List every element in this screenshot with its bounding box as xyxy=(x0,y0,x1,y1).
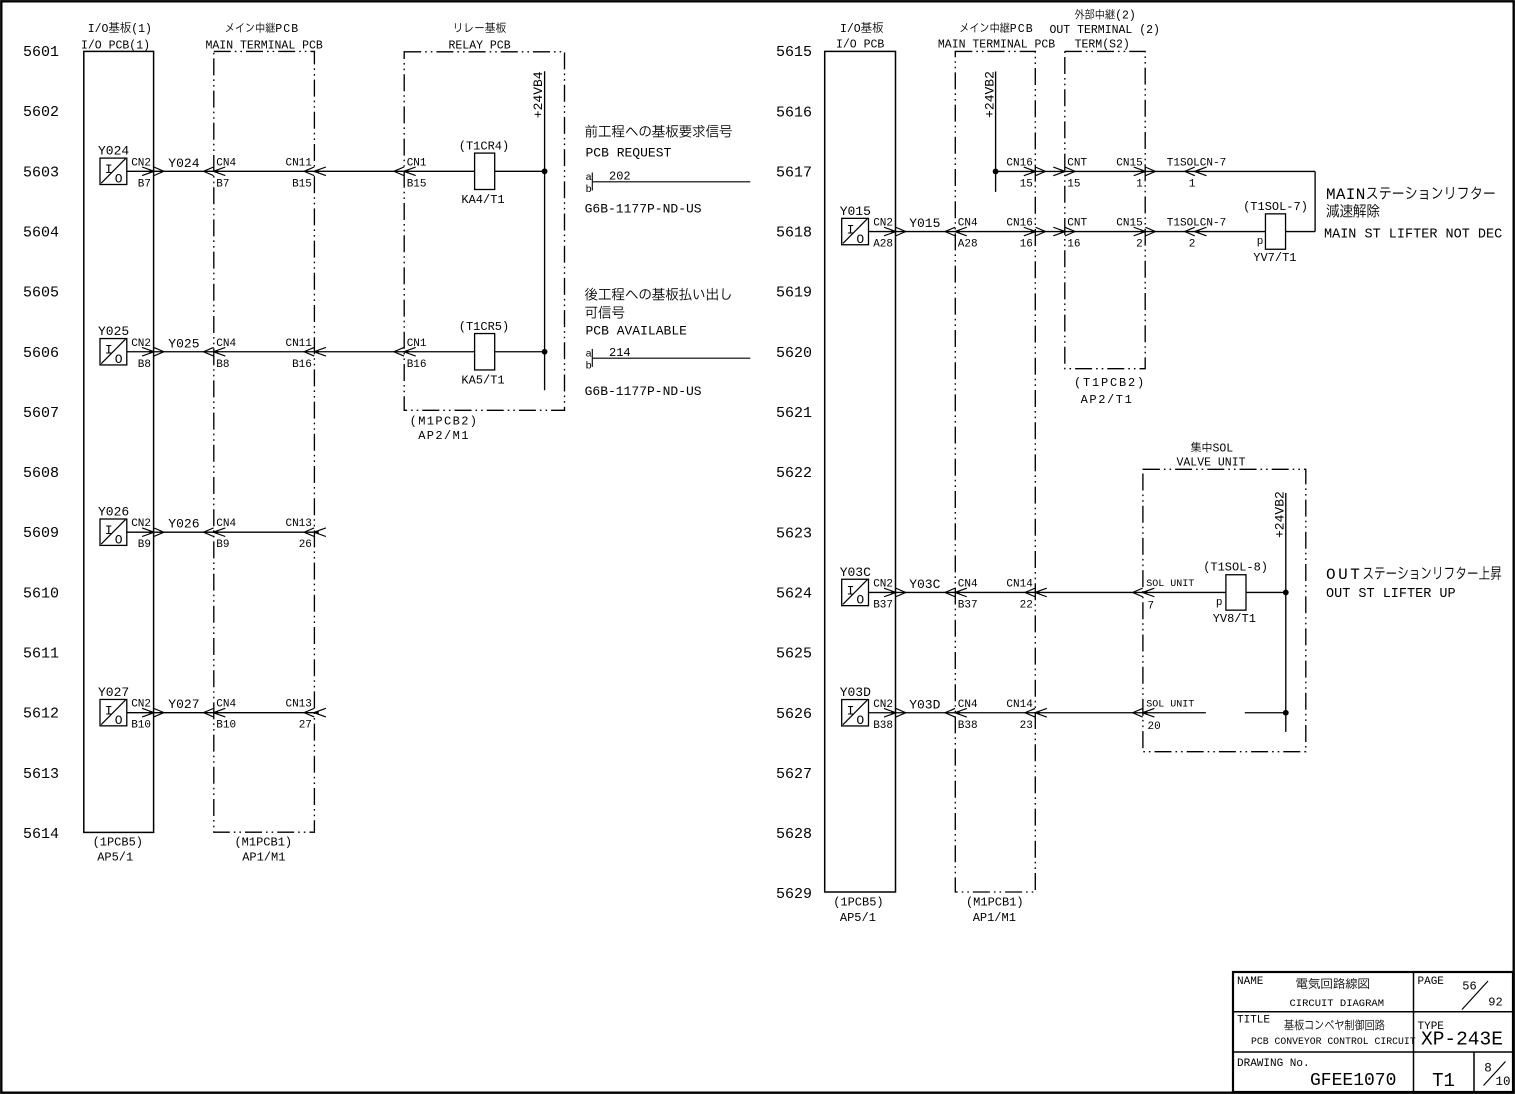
MAIN TERMINAL PCB outline AP1/M1 left xyxy=(214,51,315,832)
svg-text:B38: B38 xyxy=(873,720,893,732)
svg-text:Y026: Y026 xyxy=(98,505,129,520)
svg-text:CN2: CN2 xyxy=(131,518,151,530)
svg-text:CN14: CN14 xyxy=(1006,578,1033,590)
connector crossing CN14 pin 22 xyxy=(1006,578,1046,611)
relay coil KA5/T1 (T1CR5) xyxy=(459,320,509,387)
svg-text:CN2: CN2 xyxy=(131,699,151,711)
net number 214 with rule xyxy=(586,346,751,372)
svg-text:CN2: CN2 xyxy=(873,699,893,711)
connector crossing CN16 pin 16 xyxy=(1006,218,1045,251)
svg-text:I/O PCB: I/O PCB xyxy=(836,39,884,52)
svg-text:B7: B7 xyxy=(216,178,229,190)
connector crossing CNT pin 15 xyxy=(1053,157,1087,190)
wire row 5624 Y03C xyxy=(869,591,1286,593)
label (M1PCB2) AP2/M1 xyxy=(410,415,479,444)
svg-text:GFEE1070: GFEE1070 xyxy=(1310,1071,1396,1091)
svg-text:T1SOLCN-7: T1SOLCN-7 xyxy=(1167,218,1226,230)
svg-text:5629: 5629 xyxy=(776,886,812,903)
svg-text:B16: B16 xyxy=(292,359,312,371)
svg-text:T1SOLCN-7: T1SOLCN-7 xyxy=(1167,157,1226,169)
connector crossing SOL UNIT pin 7 xyxy=(1133,579,1195,613)
svg-text:(T1CR5): (T1CR5) xyxy=(459,320,509,334)
svg-text:NAME: NAME xyxy=(1237,976,1264,988)
svg-text:B37: B37 xyxy=(873,599,893,611)
OUT TERMINAL(2) header xyxy=(1050,9,1160,52)
MAIN TERMINAL PCB header left xyxy=(206,22,323,52)
svg-text:5615: 5615 xyxy=(776,44,812,61)
svg-text:5607: 5607 xyxy=(23,405,59,422)
svg-text:5623: 5623 xyxy=(776,525,812,542)
svg-text:(T1SOL-7): (T1SOL-7) xyxy=(1243,200,1308,214)
svg-text:5613: 5613 xyxy=(23,766,59,783)
svg-text:CN4: CN4 xyxy=(958,578,978,590)
svg-text:AP2/T1: AP2/T1 xyxy=(1081,393,1134,407)
svg-text:5627: 5627 xyxy=(776,766,812,783)
connector crossing CN4 pin B7 row 5603 xyxy=(204,157,237,190)
svg-text:5604: 5604 xyxy=(23,224,59,241)
RELAY PCB outline AP2/M1 xyxy=(404,52,564,411)
power rail +24VB2 upper xyxy=(983,71,998,192)
svg-text:MAIN TERMINAL PCB: MAIN TERMINAL PCB xyxy=(206,39,323,52)
connector crossing CN4 pin B38 xyxy=(945,699,978,732)
connector crossing CN13 pin 27 row 5612 xyxy=(285,699,325,732)
svg-text:DRAWING No.: DRAWING No. xyxy=(1237,1058,1310,1070)
svg-text:15: 15 xyxy=(1020,178,1033,190)
wire row 5618 Y015 xyxy=(869,231,1316,233)
svg-text:B9: B9 xyxy=(138,539,151,551)
svg-text:CN2: CN2 xyxy=(131,157,151,169)
svg-text:O: O xyxy=(115,532,123,547)
I/O output symbol Y015 xyxy=(840,204,871,247)
svg-text:2: 2 xyxy=(1136,239,1143,251)
MAIN TERMINAL PCB outline AP1/M1 right xyxy=(955,51,1035,892)
svg-text:VALVE UNIT: VALVE UNIT xyxy=(1177,456,1246,469)
svg-text:B8: B8 xyxy=(138,359,151,371)
wire row 5609 Y026 xyxy=(127,531,315,533)
svg-text:A28: A28 xyxy=(958,239,978,251)
svg-text:a: a xyxy=(586,348,592,360)
label (T1PCB2) AP2/T1 xyxy=(1074,376,1146,407)
connector crossing CN2 pin B37 xyxy=(873,578,906,611)
connector crossing T1SOLCN-7 pin 2 xyxy=(1167,218,1226,251)
I/O output symbol Y026 xyxy=(98,505,129,548)
svg-text:OUT: OUT xyxy=(1326,566,1362,584)
title block PAGE cell xyxy=(1418,976,1503,1010)
svg-text:KA5/T1: KA5/T1 xyxy=(461,373,504,387)
svg-text:Y027: Y027 xyxy=(98,685,129,700)
connector crossing CN4 pin B8 row 5606 xyxy=(204,338,237,371)
svg-text:(M1PCB1): (M1PCB1) xyxy=(234,836,292,850)
svg-text:PCB CONVEYOR CONTROL CIRCUIT: PCB CONVEYOR CONTROL CIRCUIT xyxy=(1251,1036,1416,1047)
svg-text:7: 7 xyxy=(1148,600,1155,612)
svg-text:Y027: Y027 xyxy=(168,697,199,712)
svg-text:(M1PCB1): (M1PCB1) xyxy=(966,896,1024,910)
annotation PCB AVAILABLE signal name xyxy=(585,288,731,339)
svg-text:+24VB4: +24VB4 xyxy=(531,71,546,118)
svg-text:(2): (2) xyxy=(1115,10,1136,23)
svg-text:Y03D: Y03D xyxy=(909,697,940,712)
connector crossing CN14 pin 23 xyxy=(1006,699,1046,732)
svg-text:Y03C: Y03C xyxy=(909,577,940,592)
svg-text:5610: 5610 xyxy=(23,585,59,602)
svg-text:5614: 5614 xyxy=(23,826,59,843)
label (1PCB5) AP5/1 right xyxy=(833,896,883,926)
svg-text:CN4: CN4 xyxy=(216,157,236,169)
svg-text:27: 27 xyxy=(299,720,312,732)
power rail +24VB2 valve unit xyxy=(1273,491,1288,732)
connector crossing CN4 pin B10 row 5612 xyxy=(204,699,237,732)
svg-text:16: 16 xyxy=(1067,239,1080,251)
svg-text:B16: B16 xyxy=(407,359,427,371)
svg-text:I/O: I/O xyxy=(840,23,861,36)
junction dot row 5606 on +24VB4 xyxy=(542,349,548,355)
svg-text:Y015: Y015 xyxy=(909,216,940,231)
svg-text:1: 1 xyxy=(1189,178,1196,190)
svg-text:TERM(S2): TERM(S2) xyxy=(1075,39,1130,52)
cable label Y024 xyxy=(168,156,199,171)
svg-text:10: 10 xyxy=(1495,1075,1510,1089)
svg-text:Y03C: Y03C xyxy=(840,565,871,580)
svg-text:56: 56 xyxy=(1462,980,1476,994)
svg-text:CN2: CN2 xyxy=(131,338,151,350)
svg-text:Y025: Y025 xyxy=(168,336,199,351)
connector crossing CN4 pin B9 row 5609 xyxy=(204,518,237,551)
connector crossing CN16 pin 15 xyxy=(1006,157,1045,190)
wire row 5626 Y03D xyxy=(869,712,1286,714)
svg-text:2: 2 xyxy=(1189,239,1196,251)
title block TYPE cell xyxy=(1418,1021,1503,1051)
power rail +24VB4 xyxy=(531,71,546,390)
svg-text:YV7/T1: YV7/T1 xyxy=(1253,251,1296,265)
connector crossing CN2 pin B38 xyxy=(873,699,906,732)
I/O output symbol Y03D xyxy=(840,685,871,728)
connector crossing CN4 pin B37 xyxy=(945,578,978,611)
svg-text:PCB: PCB xyxy=(1010,23,1034,36)
svg-text:8: 8 xyxy=(1484,1062,1492,1076)
svg-text:202: 202 xyxy=(609,170,631,184)
svg-text:SOL UNIT: SOL UNIT xyxy=(1146,699,1194,710)
svg-text:a: a xyxy=(586,172,592,184)
svg-text:+24VB2: +24VB2 xyxy=(983,71,998,118)
svg-text:b: b xyxy=(586,184,592,196)
svg-text:PCB: PCB xyxy=(275,23,299,36)
connector crossing CN2 pin B9 row 5609 xyxy=(131,518,164,551)
VALVE UNIT outline xyxy=(1143,469,1306,751)
svg-text:5601: 5601 xyxy=(23,44,59,61)
svg-text:CN4: CN4 xyxy=(216,699,236,711)
solenoid coil YV7/T1 (T1SOL-7) xyxy=(1243,200,1308,265)
svg-text:CN2: CN2 xyxy=(873,218,893,230)
svg-text:PCB REQUEST: PCB REQUEST xyxy=(586,145,672,160)
svg-text:CN4: CN4 xyxy=(216,338,236,350)
svg-text:(1PCB5): (1PCB5) xyxy=(833,896,883,910)
svg-text:I: I xyxy=(105,703,113,718)
title block sheet T1 xyxy=(1432,1070,1455,1092)
svg-text:CN4: CN4 xyxy=(216,518,236,530)
svg-text:AP5/1: AP5/1 xyxy=(97,851,133,865)
svg-text:O: O xyxy=(856,713,864,728)
svg-text:YV8/T1: YV8/T1 xyxy=(1213,612,1256,626)
svg-text:CN13: CN13 xyxy=(285,699,311,711)
label (1PCB5) AP5/1 left xyxy=(93,836,143,865)
svg-text:5612: 5612 xyxy=(23,706,59,723)
cable label Y025 xyxy=(168,336,199,351)
label (M1PCB1) AP1/M1 left xyxy=(234,836,292,865)
svg-text:Y015: Y015 xyxy=(840,204,871,219)
part number G6B-1177P-ND-US upper xyxy=(585,202,702,217)
svg-text:(1PCB5): (1PCB5) xyxy=(93,836,143,850)
connector crossing CN2 pin B10 row 5612 xyxy=(131,699,164,732)
svg-text:5608: 5608 xyxy=(23,465,59,482)
svg-text:5620: 5620 xyxy=(776,345,812,362)
svg-text:O: O xyxy=(115,352,123,367)
connector crossing CN2 pin A28 xyxy=(873,218,906,251)
svg-text:B15: B15 xyxy=(292,178,312,190)
annotation not-dec jp xyxy=(1327,204,1380,218)
svg-text:Y025: Y025 xyxy=(98,324,129,339)
svg-text:I: I xyxy=(105,523,113,538)
label (M1PCB1) AP1/M1 right xyxy=(966,896,1024,926)
svg-text:I: I xyxy=(847,222,855,237)
svg-text:Y026: Y026 xyxy=(168,517,199,532)
connector crossing CN11 pin B15 row 5603 xyxy=(285,157,325,190)
cable label Y027 xyxy=(168,697,199,712)
cable label Y015 xyxy=(909,216,940,231)
I/O output symbol Y024 xyxy=(98,144,129,187)
svg-text:B10: B10 xyxy=(216,720,236,732)
svg-text:I/O PCB(1): I/O PCB(1) xyxy=(81,39,150,52)
connector crossing CN15 pin 1 xyxy=(1116,157,1155,190)
svg-text:O: O xyxy=(856,593,864,608)
I/O output symbol Y03C xyxy=(840,565,871,608)
svg-text:Y024: Y024 xyxy=(98,144,129,159)
svg-text:5628: 5628 xyxy=(776,826,812,843)
connector crossing CN2 pin B8 row 5606 xyxy=(131,338,164,371)
svg-text:TITLE: TITLE xyxy=(1237,1014,1270,1026)
svg-text:(T1CR4): (T1CR4) xyxy=(459,140,509,154)
svg-text:O: O xyxy=(115,172,123,187)
svg-text:CIRCUIT DIAGRAM: CIRCUIT DIAGRAM xyxy=(1290,998,1385,1010)
svg-text:Y03D: Y03D xyxy=(840,685,871,700)
svg-text:5616: 5616 xyxy=(776,104,812,121)
junction dot row 5624 on +24VB2 xyxy=(1283,590,1289,596)
svg-text:CN16: CN16 xyxy=(1006,157,1032,169)
svg-text:b: b xyxy=(586,360,592,372)
svg-text:AP2/M1: AP2/M1 xyxy=(418,429,470,443)
title block frame xyxy=(1233,972,1513,1092)
svg-text:O: O xyxy=(856,232,864,247)
svg-text:(T1SOL-8): (T1SOL-8) xyxy=(1203,561,1268,575)
svg-text:16: 16 xyxy=(1020,239,1033,251)
svg-text:XP-243E: XP-243E xyxy=(1421,1029,1503,1051)
svg-text:PCB AVAILABLE: PCB AVAILABLE xyxy=(586,324,688,339)
title block NAME cell xyxy=(1237,976,1384,1010)
I/O PCB(1) board outline AP5/1 xyxy=(84,51,154,832)
wire row 5603 Y024 xyxy=(127,170,545,172)
svg-text:CN1: CN1 xyxy=(407,338,427,350)
svg-text:T1: T1 xyxy=(1432,1070,1455,1092)
svg-text:MAIN TERMINAL PCB: MAIN TERMINAL PCB xyxy=(938,39,1055,52)
connector crossing CN11 pin B16 row 5606 xyxy=(285,338,325,371)
connector crossing CN1 pin B16 row 5606 xyxy=(394,338,427,371)
svg-text:26: 26 xyxy=(299,539,312,551)
svg-text:5611: 5611 xyxy=(23,646,59,663)
wire row 5606 Y025 xyxy=(127,351,545,353)
solenoid coil YV8/T1 (T1SOL-8) xyxy=(1203,561,1268,627)
svg-text:G6B-1177P-ND-US: G6B-1177P-ND-US xyxy=(585,202,702,217)
svg-text:I: I xyxy=(105,343,113,358)
svg-text:A28: A28 xyxy=(873,239,893,251)
annotation PCB REQUEST signal name xyxy=(585,125,731,161)
svg-text:CN11: CN11 xyxy=(285,157,312,169)
part number G6B-1177P-ND-US lower xyxy=(585,384,702,399)
svg-text:OUT TERMINAL (2): OUT TERMINAL (2) xyxy=(1050,24,1160,37)
svg-text:CN13: CN13 xyxy=(285,518,311,530)
svg-text:5621: 5621 xyxy=(776,405,812,422)
junction dot row 5603 on +24VB4 xyxy=(542,168,548,174)
svg-text:I: I xyxy=(847,704,855,719)
title block DRAWING No cell xyxy=(1237,1058,1396,1091)
svg-text:B10: B10 xyxy=(131,720,151,732)
svg-text:CN16: CN16 xyxy=(1006,218,1032,230)
svg-text:CNT: CNT xyxy=(1067,157,1087,169)
svg-text:MAIN: MAIN xyxy=(1326,186,1366,204)
title block sheet 8/10 xyxy=(1484,1062,1511,1090)
svg-text:CN15: CN15 xyxy=(1116,157,1142,169)
I/O PCB board outline AP5/1 right xyxy=(825,51,896,892)
annotation MAIN ST LIFTER jp xyxy=(1326,186,1495,204)
cable label Y026 xyxy=(168,517,199,532)
svg-text:G6B-1177P-ND-US: G6B-1177P-ND-US xyxy=(585,384,702,399)
svg-text:5617: 5617 xyxy=(776,164,812,181)
svg-text:AP5/1: AP5/1 xyxy=(840,911,876,925)
row number labels 5601-5614 xyxy=(23,44,59,843)
svg-text:CN14: CN14 xyxy=(1006,699,1033,711)
svg-text:AP1/M1: AP1/M1 xyxy=(242,851,285,865)
wire row 5617 +24V feed xyxy=(996,171,1316,231)
svg-text:20: 20 xyxy=(1148,721,1161,733)
svg-text:I/O: I/O xyxy=(88,23,109,36)
svg-text:23: 23 xyxy=(1020,720,1033,732)
svg-text:5605: 5605 xyxy=(23,285,59,302)
svg-text:5609: 5609 xyxy=(23,525,59,542)
svg-text:CN4: CN4 xyxy=(958,699,978,711)
svg-text:5619: 5619 xyxy=(776,285,812,302)
I/O PCB(1) board header xyxy=(81,22,152,52)
svg-text:5603: 5603 xyxy=(23,164,59,181)
I/O output symbol Y027 xyxy=(98,685,129,728)
svg-text:Y024: Y024 xyxy=(168,156,199,171)
svg-text:B37: B37 xyxy=(958,599,978,611)
svg-text:(T1PCB2): (T1PCB2) xyxy=(1074,376,1146,390)
svg-text:B38: B38 xyxy=(958,720,978,732)
svg-text:5625: 5625 xyxy=(776,646,812,663)
connector crossing SOL UNIT pin 20 xyxy=(1133,699,1195,733)
svg-text:B8: B8 xyxy=(216,359,229,371)
OUT TERMINAL TERM(S2) outline AP2/T1 xyxy=(1065,51,1145,368)
svg-text:RELAY PCB: RELAY PCB xyxy=(449,39,511,52)
annotation OUT ST LIFTER UP xyxy=(1326,587,1456,602)
svg-text:5618: 5618 xyxy=(776,225,812,242)
VALVE UNIT header xyxy=(1177,442,1246,470)
svg-text:KA4/T1: KA4/T1 xyxy=(461,193,504,207)
connector crossing CN13 pin 26 row 5609 xyxy=(285,518,325,551)
svg-text:CNT: CNT xyxy=(1067,218,1087,230)
svg-text:214: 214 xyxy=(609,346,631,360)
svg-text:5626: 5626 xyxy=(776,706,812,723)
RELAY PCB header xyxy=(449,22,511,52)
svg-text:I: I xyxy=(105,162,113,177)
connector crossing CN1 pin B15 row 5603 xyxy=(394,157,427,190)
I/O PCB board header right xyxy=(836,22,884,52)
svg-text:B7: B7 xyxy=(138,178,151,190)
svg-text:SOL UNIT: SOL UNIT xyxy=(1146,579,1194,590)
connector crossing CN15 pin 2 xyxy=(1116,218,1155,251)
MAIN TERMINAL PCB header right xyxy=(938,22,1055,51)
connector crossing CN4 pin A28 xyxy=(945,218,978,251)
svg-text:MAIN ST LIFTER NOT DEC: MAIN ST LIFTER NOT DEC xyxy=(1324,227,1502,242)
svg-text:p: p xyxy=(1257,236,1264,248)
svg-text:p: p xyxy=(1216,597,1223,609)
svg-text:CN1: CN1 xyxy=(407,157,427,169)
annotation MAIN ST LIFTER NOT DEC xyxy=(1324,227,1502,242)
svg-text:15: 15 xyxy=(1067,178,1080,190)
svg-text:(1): (1) xyxy=(131,23,152,36)
svg-text:1: 1 xyxy=(1136,178,1143,190)
svg-text:OUT ST LIFTER UP: OUT ST LIFTER UP xyxy=(1326,587,1456,602)
svg-text:5602: 5602 xyxy=(23,104,59,121)
svg-text:+24VB2: +24VB2 xyxy=(1273,491,1288,538)
wire row 5612 Y027 xyxy=(127,712,315,714)
svg-text:5622: 5622 xyxy=(776,465,812,482)
relay coil KA4/T1 (T1CR4) xyxy=(459,140,509,207)
net number 202 with rule xyxy=(586,170,751,196)
svg-text:SOL: SOL xyxy=(1212,443,1233,456)
svg-text:B15: B15 xyxy=(407,178,427,190)
I/O output symbol Y025 xyxy=(98,324,129,367)
svg-text:5624: 5624 xyxy=(776,585,812,602)
title block TITLE cell xyxy=(1237,1014,1416,1047)
svg-text:5606: 5606 xyxy=(23,345,59,362)
svg-text:22: 22 xyxy=(1020,599,1033,611)
row number labels 5615-5629 xyxy=(776,44,812,903)
svg-text:AP1/M1: AP1/M1 xyxy=(973,911,1016,925)
connector crossing T1SOLCN-7 pin 1 xyxy=(1167,157,1226,190)
connector crossing CN2 pin B7 row 5603 xyxy=(131,157,164,190)
junction dot row 5617 on +24VB2 xyxy=(993,169,999,175)
svg-text:92: 92 xyxy=(1488,996,1502,1010)
svg-text:I: I xyxy=(847,583,855,598)
junction dot row 5626 on +24VB2 xyxy=(1283,710,1289,716)
svg-text:CN2: CN2 xyxy=(873,578,893,590)
svg-text:CN15: CN15 xyxy=(1116,218,1142,230)
annotation OUT ST LIFTER jp xyxy=(1326,566,1501,584)
svg-text:PAGE: PAGE xyxy=(1418,976,1445,988)
connector crossing CNT pin 16 xyxy=(1053,218,1087,251)
svg-text:CN11: CN11 xyxy=(285,338,312,350)
cable label Y03D xyxy=(909,697,940,712)
svg-text:B9: B9 xyxy=(216,539,229,551)
cable label Y03C xyxy=(909,577,940,592)
svg-text:CN4: CN4 xyxy=(958,218,978,230)
svg-text:O: O xyxy=(115,713,123,728)
svg-text:(M1PCB2): (M1PCB2) xyxy=(410,415,479,429)
